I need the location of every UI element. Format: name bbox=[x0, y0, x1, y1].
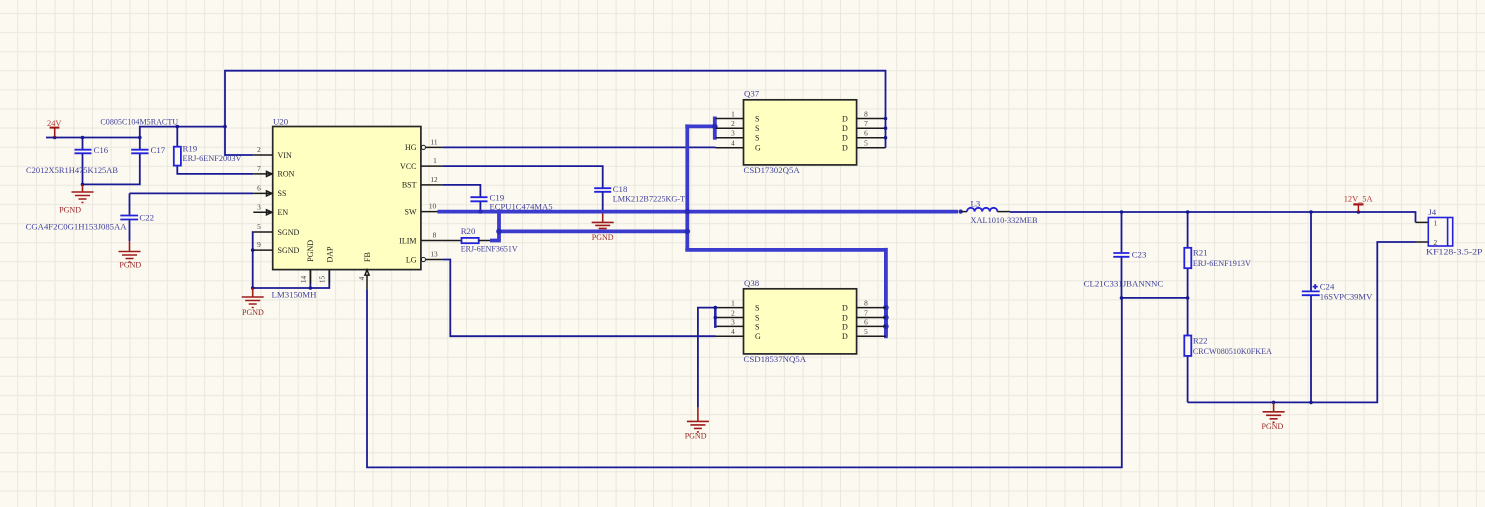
svg-text:5: 5 bbox=[864, 327, 868, 336]
svg-text:1: 1 bbox=[731, 110, 735, 119]
svg-text:9: 9 bbox=[257, 240, 261, 249]
svg-text:PGND: PGND bbox=[306, 240, 315, 262]
svg-text:R22: R22 bbox=[1193, 336, 1208, 346]
svg-text:1: 1 bbox=[433, 156, 437, 165]
svg-text:2: 2 bbox=[731, 309, 735, 318]
svg-text:KF128-3.5-2P: KF128-3.5-2P bbox=[1426, 247, 1483, 257]
resistor R22 bbox=[1184, 298, 1272, 403]
Q38 pin stubs bbox=[715, 308, 886, 337]
svg-text:J4: J4 bbox=[1428, 207, 1436, 217]
svg-text:PGND: PGND bbox=[685, 432, 707, 441]
Q37 pin stubs bbox=[716, 119, 886, 148]
capacitor C16 bbox=[26, 138, 118, 185]
svg-text:4: 4 bbox=[357, 276, 366, 280]
svg-text:D: D bbox=[842, 322, 848, 331]
svg-text:CSD17302Q5A: CSD17302Q5A bbox=[744, 165, 801, 175]
capacitor C22 bbox=[26, 193, 154, 241]
svg-text:Q38: Q38 bbox=[744, 278, 760, 288]
svg-text:7: 7 bbox=[257, 164, 261, 173]
svg-text:D: D bbox=[842, 124, 848, 133]
svg-text:1: 1 bbox=[731, 299, 735, 308]
resistor R20 bbox=[442, 226, 518, 254]
svg-text:3: 3 bbox=[731, 317, 735, 326]
U20 left pin stubs bbox=[253, 155, 272, 250]
svg-text:6: 6 bbox=[864, 317, 868, 326]
svg-text:ERJ-6ENF1913V: ERJ-6ENF1913V bbox=[1193, 258, 1252, 268]
svg-text:3: 3 bbox=[731, 129, 735, 138]
svg-text:BST: BST bbox=[402, 181, 417, 190]
ground PGND under C18 bbox=[592, 213, 614, 242]
svg-text:5: 5 bbox=[864, 139, 868, 148]
svg-text:S: S bbox=[755, 314, 759, 323]
svg-text:VCC: VCC bbox=[400, 162, 416, 171]
U20 bottom pin numbers bbox=[299, 275, 366, 283]
wire ground rail bbox=[1188, 242, 1416, 402]
wire Q38 source ground bbox=[698, 306, 717, 408]
Q38 pin names bbox=[755, 304, 848, 342]
U20 bottom pin stubs bbox=[310, 270, 369, 290]
svg-text:10: 10 bbox=[429, 202, 437, 211]
svg-text:SGND: SGND bbox=[278, 228, 300, 237]
svg-text:2: 2 bbox=[257, 145, 261, 154]
svg-text:S: S bbox=[755, 134, 759, 143]
svg-text:EN: EN bbox=[278, 208, 289, 217]
svg-text:S: S bbox=[755, 124, 759, 133]
svg-text:6: 6 bbox=[864, 129, 868, 138]
svg-text:7: 7 bbox=[864, 119, 868, 128]
svg-text:S: S bbox=[755, 322, 759, 331]
node ground rail junctions bbox=[1272, 401, 1313, 405]
IC U20 LM3150MH bbox=[272, 117, 421, 300]
wire BST net bbox=[442, 185, 480, 197]
U20 bottom pin names bbox=[306, 240, 372, 263]
svg-text:L3: L3 bbox=[971, 198, 981, 208]
connector J4 bbox=[1426, 207, 1483, 257]
svg-text:R19: R19 bbox=[183, 144, 198, 154]
svg-text:R21: R21 bbox=[1193, 248, 1208, 258]
svg-text:XAL1010-332MEB: XAL1010-332MEB bbox=[971, 215, 1038, 225]
svg-text:SS: SS bbox=[278, 189, 287, 198]
svg-text:ERJ-6ENF3651V: ERJ-6ENF3651V bbox=[461, 244, 519, 254]
svg-text:CL21C331JBANNNC: CL21C331JBANNNC bbox=[1084, 279, 1164, 289]
Q37 pin numbers bbox=[731, 110, 868, 148]
svg-text:CRCW080510K0FKEA: CRCW080510K0FKEA bbox=[1193, 346, 1273, 356]
wire LG to Q38 gate bbox=[442, 260, 715, 337]
svg-text:14: 14 bbox=[299, 275, 308, 283]
node output rail junctions bbox=[1120, 210, 1361, 214]
svg-text:LMK212B7225KG-T: LMK212B7225KG-T bbox=[613, 193, 686, 203]
svg-text:G: G bbox=[755, 144, 761, 153]
resistor R21 bbox=[1184, 212, 1251, 298]
svg-text:C0805C104M5RACTU: C0805C104M5RACTU bbox=[100, 117, 178, 127]
wire output 12V rail bbox=[1010, 212, 1428, 222]
node SGND junctions bbox=[251, 248, 312, 290]
node Q37 drain junctions bbox=[884, 117, 888, 140]
svg-text:C17: C17 bbox=[151, 145, 166, 155]
wire SW thick net bbox=[438, 117, 959, 339]
svg-text:D: D bbox=[842, 144, 848, 153]
svg-text:D: D bbox=[842, 314, 848, 323]
wire FB net bbox=[367, 289, 1188, 467]
svg-text:S: S bbox=[755, 304, 759, 313]
svg-text:C24: C24 bbox=[1320, 282, 1335, 292]
svg-text:8: 8 bbox=[864, 299, 868, 308]
svg-text:8: 8 bbox=[864, 110, 868, 119]
svg-text:C16: C16 bbox=[94, 145, 109, 155]
ground PGND under Q38 bbox=[685, 408, 709, 441]
transistor Q37 bbox=[744, 89, 857, 175]
svg-text:16SVPC39MV: 16SVPC39MV bbox=[1320, 292, 1373, 302]
svg-text:U20: U20 bbox=[273, 117, 289, 127]
ground PGND bottom right bbox=[1262, 402, 1285, 431]
wire VCC net bbox=[442, 166, 602, 188]
svg-text:PGND: PGND bbox=[119, 261, 141, 270]
svg-text:7: 7 bbox=[864, 309, 868, 318]
svg-text:S: S bbox=[755, 115, 759, 124]
power port 12V_5A bbox=[1344, 195, 1373, 213]
Q37 pin names bbox=[755, 115, 848, 153]
capacitor C23 bbox=[1084, 212, 1164, 298]
svg-text:4: 4 bbox=[731, 327, 735, 336]
svg-text:12V_5A: 12V_5A bbox=[1344, 195, 1373, 204]
wire HG to Q37 gate bbox=[442, 146, 715, 148]
svg-text:PGND: PGND bbox=[592, 233, 614, 242]
resistor R19 bbox=[174, 127, 254, 174]
svg-text:1: 1 bbox=[1434, 219, 1438, 228]
svg-text:CSD18537NQ5A: CSD18537NQ5A bbox=[744, 354, 807, 364]
svg-text:2: 2 bbox=[1434, 238, 1438, 247]
svg-text:PGND: PGND bbox=[242, 308, 264, 317]
svg-text:SGND: SGND bbox=[278, 246, 300, 255]
svg-text:3: 3 bbox=[257, 202, 261, 211]
svg-text:RON: RON bbox=[278, 170, 295, 179]
svg-text:LG: LG bbox=[406, 255, 417, 264]
svg-text:Q37: Q37 bbox=[744, 89, 760, 99]
svg-text:LM3150MH: LM3150MH bbox=[272, 290, 318, 300]
svg-text:D: D bbox=[842, 115, 848, 124]
ground PGND under C16 bbox=[59, 184, 93, 214]
U20 right pin names bbox=[399, 143, 417, 264]
Q38 pin numbers bbox=[731, 299, 868, 337]
svg-text:DAP: DAP bbox=[325, 246, 334, 263]
power port 24V bbox=[47, 119, 61, 138]
svg-text:13: 13 bbox=[430, 250, 438, 259]
svg-text:SW: SW bbox=[405, 207, 417, 216]
svg-text:C23: C23 bbox=[1132, 250, 1147, 260]
svg-text:CGA4F2C0G1H153J085AA: CGA4F2C0G1H153J085AA bbox=[26, 222, 128, 232]
capacitor C18 bbox=[594, 184, 686, 213]
svg-text:ERJ-6ENF2003V: ERJ-6ENF2003V bbox=[183, 153, 243, 163]
svg-text:D: D bbox=[842, 332, 848, 341]
capacitor C19 bbox=[470, 193, 553, 212]
node SW junctions bbox=[478, 124, 963, 330]
ground PGND under SGND bbox=[242, 288, 264, 317]
svg-text:ILIM: ILIM bbox=[399, 236, 416, 245]
U20 right pin stubs bbox=[421, 145, 443, 261]
U20 right pin numbers bbox=[429, 137, 438, 258]
transistor Q38 bbox=[744, 278, 857, 364]
svg-text:R20: R20 bbox=[461, 226, 476, 236]
svg-text:D: D bbox=[842, 304, 848, 313]
svg-text:HG: HG bbox=[405, 143, 417, 152]
svg-text:PGND: PGND bbox=[59, 206, 81, 215]
node C16 bottom junction bbox=[81, 183, 85, 187]
svg-text:8: 8 bbox=[433, 231, 437, 240]
svg-text:VIN: VIN bbox=[278, 151, 292, 160]
svg-text:4: 4 bbox=[731, 139, 735, 148]
svg-text:6: 6 bbox=[257, 183, 261, 192]
svg-text:15: 15 bbox=[318, 275, 327, 283]
capacitor C17 bbox=[83, 138, 166, 185]
node FB divider junctions bbox=[1120, 296, 1190, 300]
ground PGND under C22 bbox=[119, 241, 142, 269]
svg-text:PGND: PGND bbox=[1262, 422, 1284, 431]
svg-text:11: 11 bbox=[430, 137, 437, 146]
svg-text:C22: C22 bbox=[139, 213, 154, 223]
inductor L3 bbox=[961, 198, 1038, 225]
wire VIN input rail bbox=[46, 71, 886, 155]
svg-text:G: G bbox=[755, 332, 761, 341]
capacitor C24 bbox=[1302, 212, 1373, 402]
wire SS net bbox=[130, 192, 254, 194]
wire SGND net bbox=[253, 232, 330, 288]
node VIN junctions bbox=[53, 125, 227, 140]
svg-text:2: 2 bbox=[731, 119, 735, 128]
svg-text:D: D bbox=[842, 134, 848, 143]
svg-text:FB: FB bbox=[363, 252, 372, 262]
svg-text:12: 12 bbox=[430, 175, 438, 184]
U20 left pin numbers bbox=[257, 145, 261, 249]
svg-text:5: 5 bbox=[257, 222, 261, 231]
svg-text:C2012X5R1H475K125AB: C2012X5R1H475K125AB bbox=[26, 165, 118, 175]
U20 left pin names bbox=[278, 151, 300, 255]
